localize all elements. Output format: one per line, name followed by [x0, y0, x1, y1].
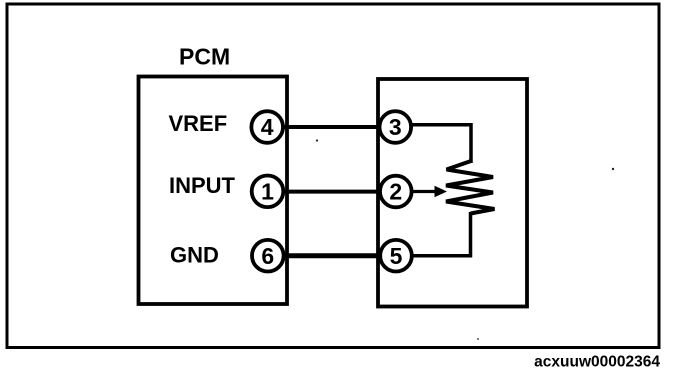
pin 1: [252, 176, 284, 208]
figure ID acxuuw00002364: [534, 354, 660, 371]
wire GND: pin 6 to pin 5: [267, 253, 396, 258]
wiper arrow from pin 2: [396, 186, 447, 197]
pin 6: [252, 240, 284, 272]
PCM module box: [139, 77, 288, 305]
svg-text:VREF: VREF: [169, 111, 228, 136]
wire from resistor bottom to pin 5: [396, 212, 471, 256]
svg-text:GND: GND: [170, 243, 219, 268]
label PCM: [179, 44, 230, 70]
svg-text:INPUT: INPUT: [169, 173, 236, 198]
svg-text:PCM: PCM: [179, 44, 230, 70]
wire INPUT: pin 1 to pin 2: [267, 190, 396, 194]
label INPUT: [169, 173, 236, 198]
svg-text:1: 1: [261, 179, 274, 205]
svg-text:6: 6: [261, 243, 274, 269]
label GND: [170, 243, 219, 268]
pin 5: [380, 240, 412, 272]
pin 4: [251, 111, 283, 143]
label VREF: [169, 111, 228, 136]
pin 2: [380, 176, 412, 208]
svg-text:2: 2: [389, 179, 402, 205]
scan speck right of sensor box: [612, 168, 614, 170]
svg-text:3: 3: [389, 114, 402, 140]
wire from pin 3 to resistor top: [396, 125, 471, 163]
pin 3: [380, 111, 412, 143]
scan speck near VREF wire: [316, 139, 318, 141]
resistor (potentiometer element): [446, 161, 495, 214]
svg-text:4: 4: [261, 114, 274, 140]
scan speck below sensor box: [477, 338, 479, 340]
svg-text:5: 5: [390, 243, 403, 269]
wire VREF: pin 4 to pin 3: [267, 125, 396, 129]
svg-text:acxuuw00002364: acxuuw00002364: [534, 354, 660, 371]
sensor box (potentiometer housing): [378, 79, 527, 307]
